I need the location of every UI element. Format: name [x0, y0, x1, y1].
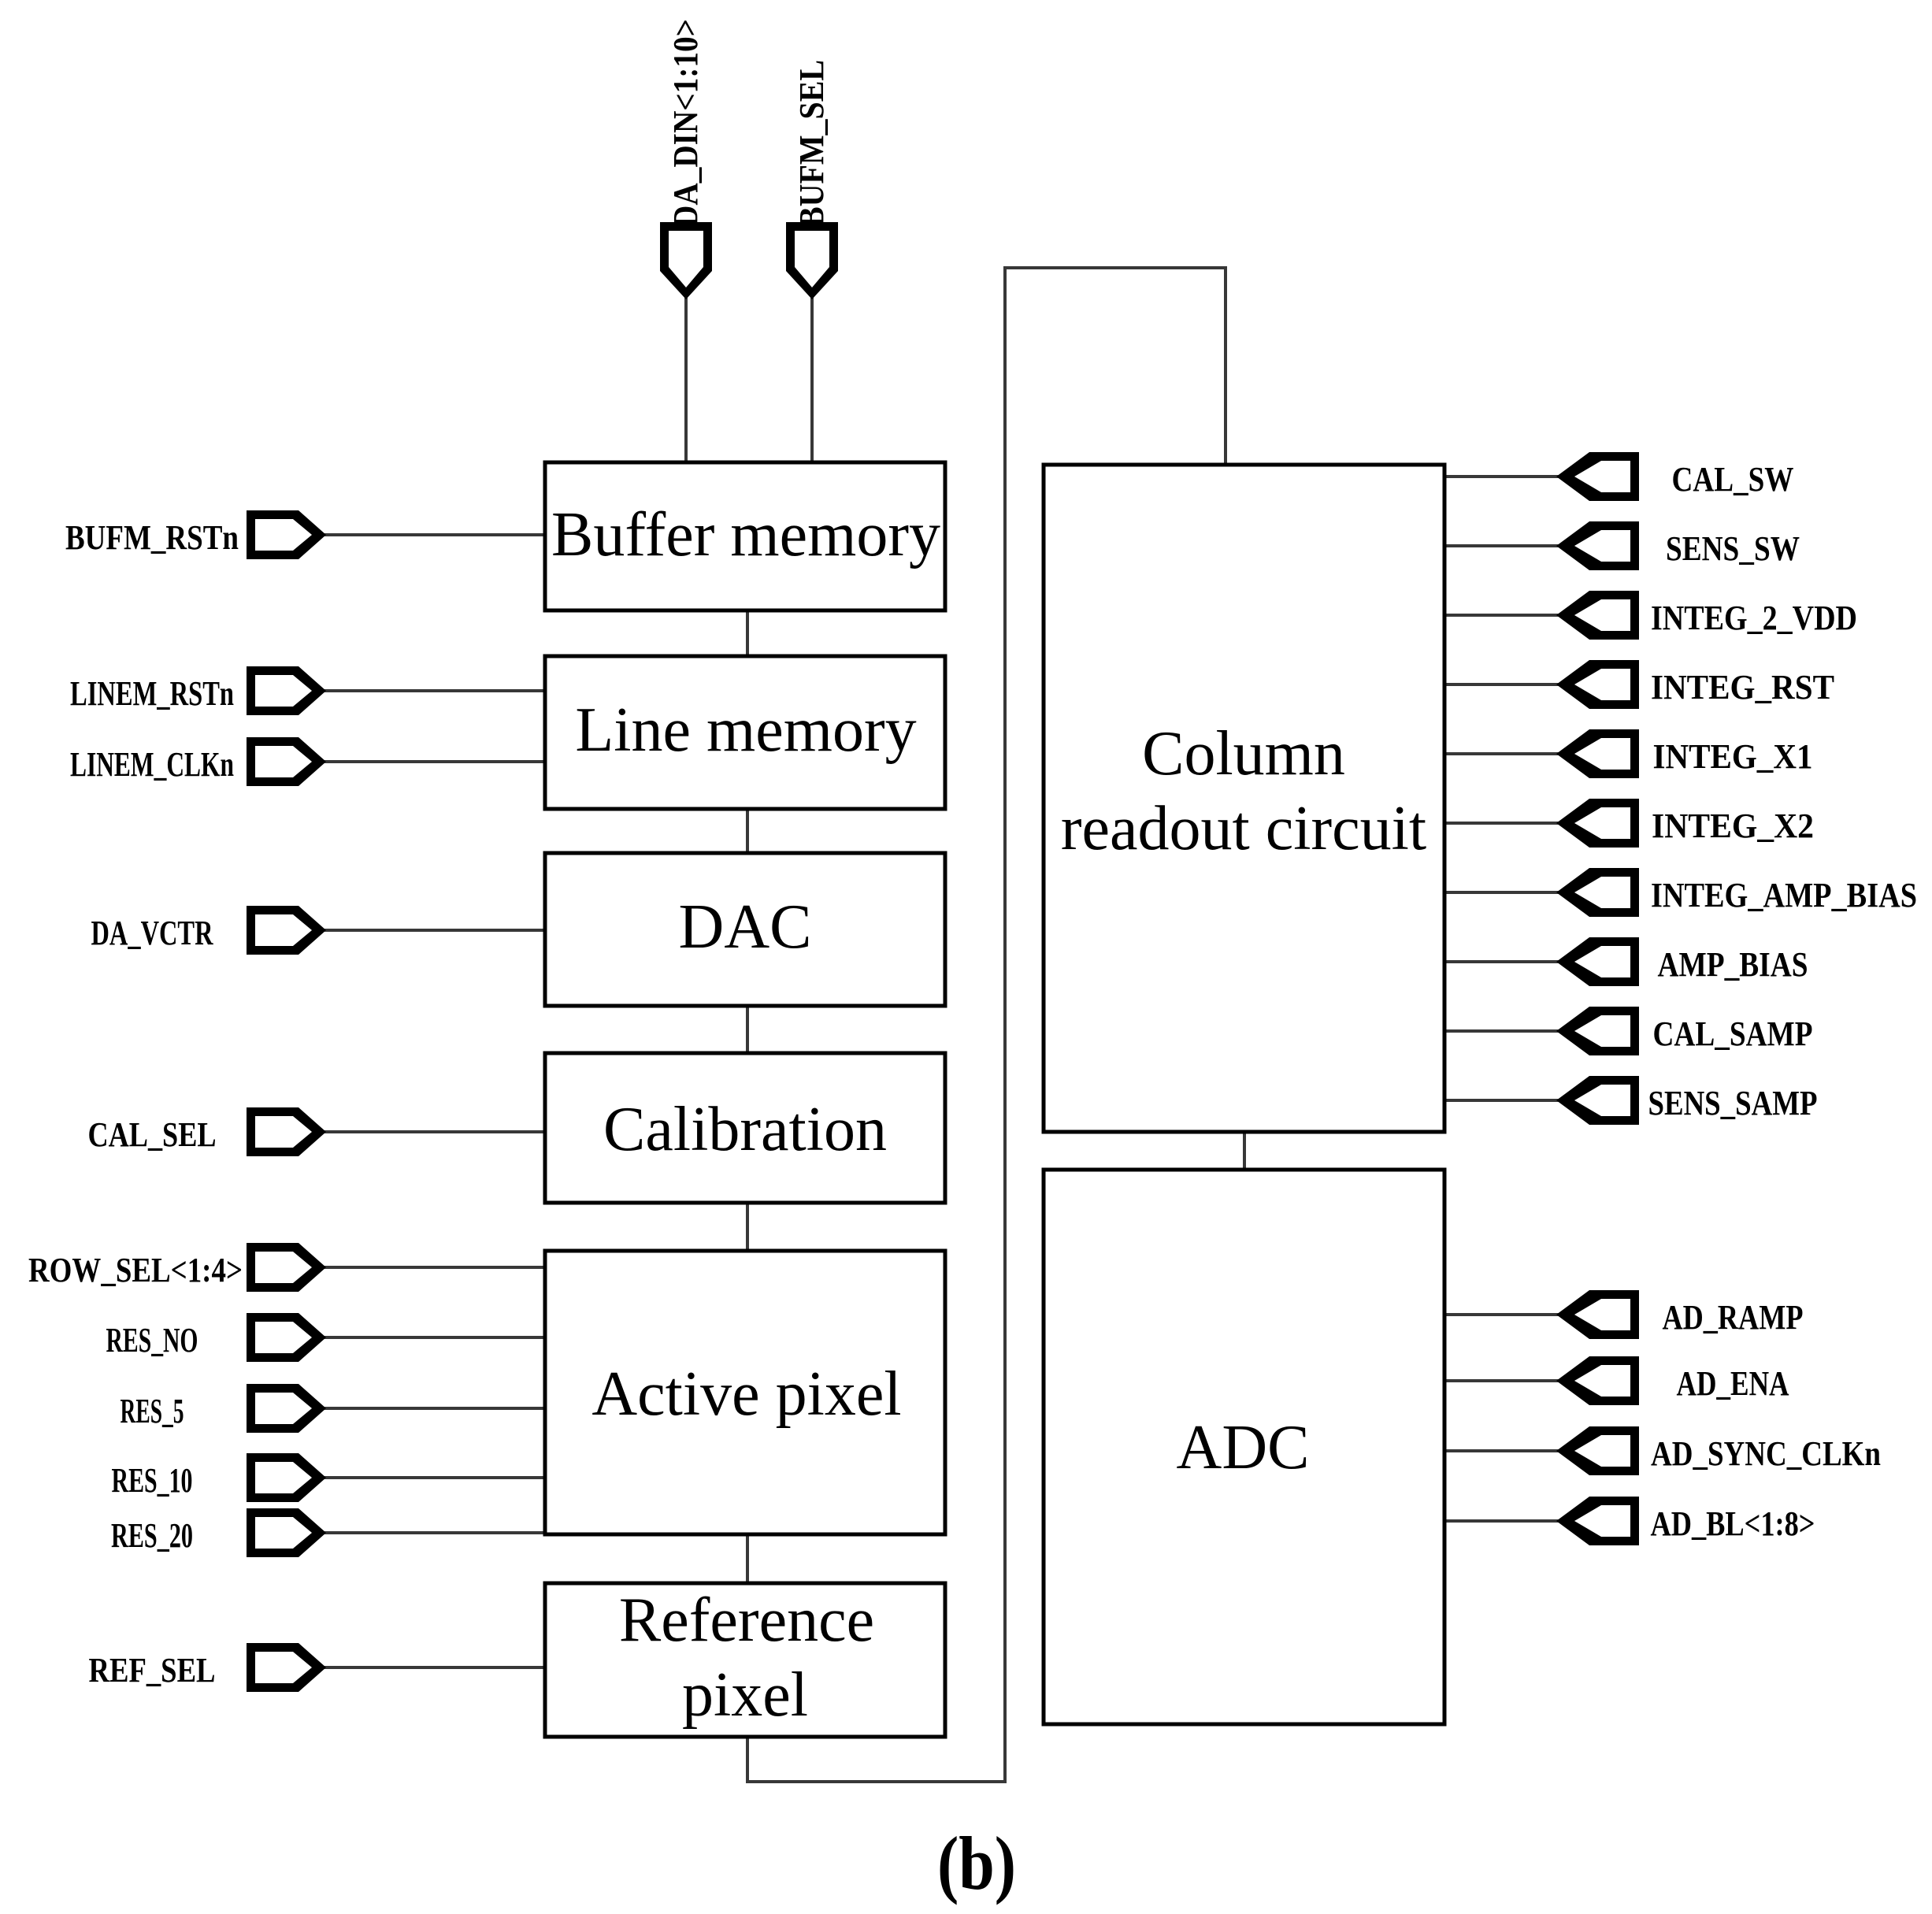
svg-text:DAC: DAC — [679, 892, 812, 962]
svg-text:RES_NO: RES_NO — [106, 1321, 198, 1359]
svg-text:ADC: ADC — [1177, 1413, 1310, 1482]
port CAL_SEL input arrow — [88, 1107, 548, 1156]
wire Column readout circuit to ADC — [1243, 1132, 1246, 1171]
wire down to Column readout circuit top — [1224, 266, 1227, 466]
svg-text:Reference: Reference — [619, 1586, 874, 1655]
wire long vertical bus — [1003, 266, 1007, 1783]
wire Buffer memory to Line memory — [746, 610, 749, 656]
svg-text:AMP_BIAS: AMP_BIAS — [1658, 945, 1808, 984]
svg-text:Buffer memory: Buffer memory — [551, 500, 940, 569]
svg-text:Line memory: Line memory — [575, 695, 916, 765]
port DA_VCTR input arrow — [91, 906, 548, 955]
svg-text:INTEG_2_VDD: INTEG_2_VDD — [1651, 599, 1857, 637]
port BUFM_SEL input arrow — [786, 60, 838, 299]
port RES_10 input arrow — [112, 1453, 548, 1502]
svg-text:INTEG_X2: INTEG_X2 — [1652, 807, 1814, 845]
port INTEG_X1 output arrow — [1442, 729, 1813, 778]
svg-text:Column: Column — [1142, 719, 1345, 788]
svg-text:ROW_SEL<1:4>: ROW_SEL<1:4> — [28, 1251, 243, 1289]
port REF_SEL input arrow — [89, 1643, 548, 1692]
block Active pixel — [545, 1251, 945, 1534]
label (b) — [937, 1821, 1016, 1905]
svg-text:SENS_SW: SENS_SW — [1666, 529, 1800, 568]
port LINEM_CLKn input arrow — [70, 737, 547, 786]
port AD_RAMP output arrow — [1442, 1290, 1804, 1339]
block Reference pixel — [545, 1583, 945, 1737]
svg-text:RES_10: RES_10 — [112, 1461, 193, 1500]
svg-text:(b): (b) — [937, 1821, 1016, 1905]
wire Reference pixel to bottom bus — [746, 1737, 749, 1783]
wire Calibration to Active pixel — [746, 1203, 749, 1251]
svg-text:SENS_SAMP: SENS_SAMP — [1648, 1084, 1818, 1122]
svg-text:CAL_SW: CAL_SW — [1672, 460, 1794, 499]
svg-text:Calibration: Calibration — [603, 1095, 887, 1164]
port AMP_BIAS output arrow — [1442, 937, 1808, 986]
port AD_BL<1:8> output arrow — [1442, 1497, 1815, 1545]
svg-text:readout circuit: readout circuit — [1061, 794, 1426, 863]
port RES_5 input arrow — [121, 1384, 548, 1433]
block ADC — [1044, 1170, 1444, 1724]
svg-text:DA_DIN<1:10>: DA_DIN<1:10> — [666, 19, 705, 228]
svg-text:Active pixel: Active pixel — [591, 1359, 901, 1429]
port CAL_SAMP output arrow — [1442, 1007, 1813, 1055]
port DA_DIN<1:10> input arrow — [660, 19, 712, 299]
block DAC — [545, 853, 945, 1006]
svg-text:INTEG_AMP_BIAS: INTEG_AMP_BIAS — [1651, 876, 1917, 914]
port INTEG_RST output arrow — [1442, 660, 1834, 709]
port LINEM_RSTn input arrow — [70, 666, 547, 715]
svg-text:CAL_SAMP: CAL_SAMP — [1653, 1014, 1813, 1053]
svg-text:AD_RAMP: AD_RAMP — [1663, 1298, 1804, 1337]
wire DAC to Calibration — [746, 1006, 749, 1053]
port AD_ENA output arrow — [1442, 1356, 1789, 1405]
port INTEG_X2 output arrow — [1442, 799, 1814, 848]
block Calibration — [545, 1053, 945, 1203]
svg-text:AD_ENA: AD_ENA — [1677, 1364, 1789, 1403]
wire bottom horizontal bus — [746, 1780, 1007, 1783]
port RES_20 input arrow — [111, 1508, 547, 1557]
svg-text:pixel: pixel — [682, 1660, 808, 1730]
wire Line memory to DAC — [746, 809, 749, 853]
svg-text:BUFM_SEL: BUFM_SEL — [792, 60, 831, 228]
wire Active pixel to Reference pixel — [746, 1534, 749, 1583]
svg-text:DA_VCTR: DA_VCTR — [91, 914, 214, 952]
port CAL_SW output arrow — [1442, 452, 1794, 501]
svg-text:RES_20: RES_20 — [111, 1516, 193, 1555]
block Buffer memory — [545, 462, 945, 610]
port SENS_SAMP output arrow — [1442, 1076, 1818, 1125]
port INTEG_AMP_BIAS output arrow — [1442, 868, 1917, 917]
svg-text:INTEG_X1: INTEG_X1 — [1653, 737, 1813, 776]
block Line memory — [545, 656, 945, 809]
svg-text:LINEM_RSTn: LINEM_RSTn — [70, 674, 234, 713]
svg-text:RES_5: RES_5 — [121, 1392, 184, 1430]
wire BUFM_SEL stem — [810, 298, 814, 464]
port INTEG_2_VDD output arrow — [1442, 591, 1857, 640]
svg-text:BUFM_RSTn: BUFM_RSTn — [65, 518, 239, 557]
port ROW_SEL<1:4> input arrow — [28, 1243, 547, 1292]
block Column readout circuit — [1044, 465, 1444, 1132]
svg-text:AD_BL<1:8>: AD_BL<1:8> — [1651, 1504, 1815, 1543]
port AD_SYNC_CLKn output arrow — [1442, 1426, 1881, 1475]
port BUFM_RSTn input arrow — [65, 510, 547, 559]
svg-text:CAL_SEL: CAL_SEL — [88, 1115, 217, 1154]
wire top horizontal bus — [1003, 266, 1227, 269]
port RES_NO input arrow — [106, 1313, 548, 1362]
port SENS_SW output arrow — [1442, 521, 1800, 570]
wire DA_DIN stem — [684, 298, 688, 464]
svg-text:AD_SYNC_CLKn: AD_SYNC_CLKn — [1651, 1434, 1881, 1473]
svg-text:LINEM_CLKn: LINEM_CLKn — [70, 745, 234, 784]
svg-text:REF_SEL: REF_SEL — [89, 1651, 216, 1690]
svg-text:INTEG_RST: INTEG_RST — [1651, 668, 1834, 707]
